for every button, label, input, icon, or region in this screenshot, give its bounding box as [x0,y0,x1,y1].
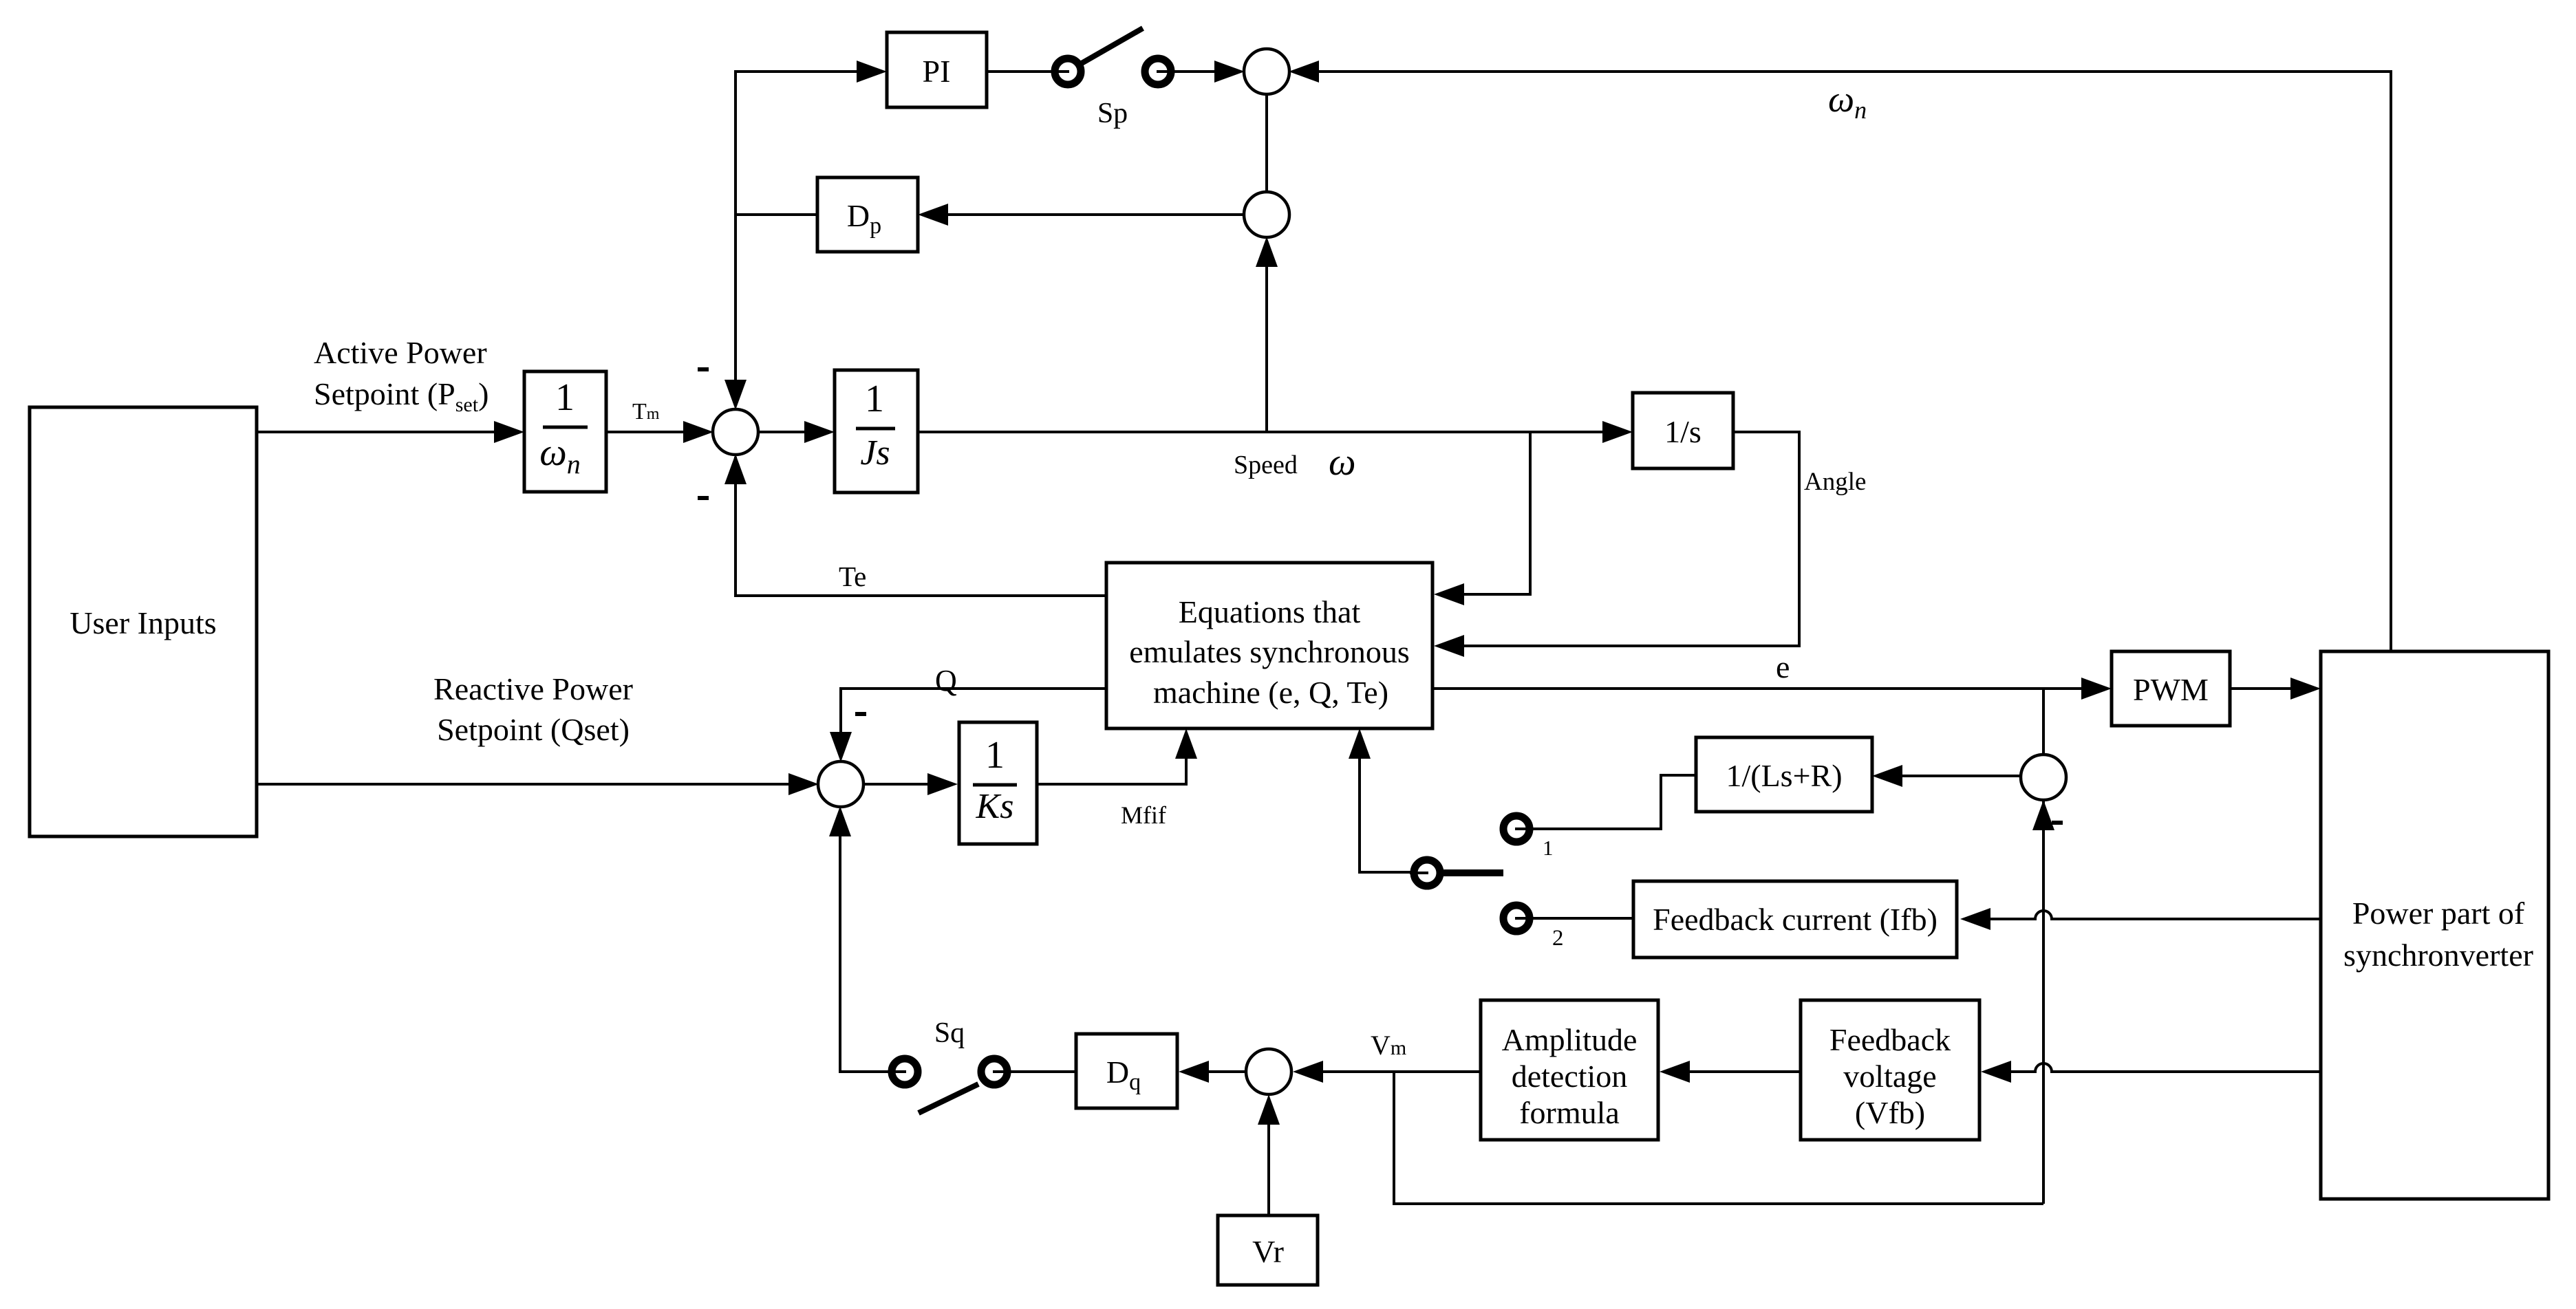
wire PWM to power part [2230,678,2321,700]
wire e branch down to current summing junction [2042,689,2045,755]
wire selector pole into equations box [1349,728,1427,872]
svg-text:2: 2 [1552,926,1564,951]
label Sp [1097,98,1128,129]
block User Inputs [30,407,257,836]
block 1/Js [835,370,918,493]
svg-text:voltage: voltage [1843,1059,1936,1094]
wire Mfif into equations box [1038,728,1197,784]
switch terminal 2 [1503,905,1534,931]
block Amplitude detection formula [1481,1000,1658,1140]
svg-text:Feedback: Feedback [1829,1022,1951,1057]
wire Te feedback [724,454,1106,596]
svg-text:1/s: 1/s [1664,414,1702,449]
wire terminal 1 to 1/(Ls+R) [1529,775,1696,829]
wire branch down into equations box (speed input) [1434,432,1530,605]
svg-text:1: 1 [865,378,884,420]
wire Q feedback from equations box [830,689,1106,762]
wire branch up to Dp junction [1256,237,1278,432]
wire e from equations box to PWM [1432,678,2112,700]
svg-text:Reactive Power: Reactive Power [433,671,633,706]
svg-text:1: 1 [555,376,575,419]
svg-text:(Vfb): (Vfb) [1855,1095,1925,1130]
wire Vm branch down and around to current junction [1394,1072,2043,1204]
wire Vfb from power part to Feedback voltage block (hop) [1981,1061,2321,1083]
wire Dp junction to Dp block [918,204,1245,226]
block 1/Ks [959,722,1037,844]
wire Vr to voltage junction [1258,1094,1280,1215]
switch terminal 1 [1503,816,1534,842]
wire Vfb to Amplitude detection [1660,1061,1801,1083]
svg-text:1: 1 [1543,836,1554,860]
switch selector pole [1410,860,1503,886]
summing junction (torque) [713,409,758,455]
label Mfif [1121,801,1166,829]
svg-text:Te: Te [839,561,866,592]
label omega [1329,441,1356,484]
label 1 [1543,836,1554,860]
svg-text:Feedback current (Ifb): Feedback current (Ifb) [1653,902,1938,937]
summing junction (current) [2021,755,2066,830]
wire PI output to switch Sp [987,70,1068,73]
svg-text:Sq: Sq [934,1017,965,1049]
label Te [839,561,866,592]
wire terminal 2 to Feedback current block [1529,917,1633,920]
wire speed omega from 1/Js to 1/s [918,421,1633,443]
block 1/s [1633,393,1733,468]
svg-text:PWM: PWM [2133,672,2209,707]
block Vr [1218,1215,1318,1285]
svg-text:Setpoint (Qset): Setpoint (Qset) [437,712,630,747]
svg-text:Speed: Speed [1234,451,1298,479]
label Q [935,664,957,697]
wire torque sum to 1/Js [758,421,835,443]
minus sign lower input of torque junction [698,496,709,500]
svg-text:Amplitude: Amplitude [1502,1022,1638,1057]
label e [1776,649,1790,684]
svg-text:e: e [1776,649,1790,684]
label Vm [1371,1030,1406,1061]
wire node vertical (PI and Dp tap) [724,61,887,410]
svg-text:1/(Ls+R): 1/(Ls+R) [1726,758,1842,793]
wire Vm from Amplitude detection to Vm summing junction [1293,1061,1481,1083]
label Angle [1804,468,1866,496]
svg-text:Angle: Angle [1804,468,1866,496]
wire Pset from User Inputs to 1/wn block [257,421,524,443]
block Dq [1076,1034,1177,1108]
block 1/(Ls+R) [1696,737,1872,812]
summing junction (voltage) [1246,1049,1291,1094]
label Sq [934,1017,965,1049]
label Tm [632,399,660,424]
wire Dq to switch Sq [994,1070,1076,1073]
svg-text:1: 1 [985,734,1005,777]
svg-text:formula: formula [1519,1095,1620,1130]
summing junction (frequency) [1244,49,1289,94]
svg-text:Ks: Ks [976,787,1014,826]
svg-text:Active Power: Active Power [314,335,487,370]
svg-text:Sp: Sp [1097,98,1128,129]
label 2 [1552,926,1564,951]
label Reactive Power Setpoint (Qset) [433,671,633,747]
block Feedback current (Ifb) [1633,881,1957,958]
block Feedback voltage (Vfb) [1801,1000,1979,1140]
minus sign upper input of torque junction [698,367,709,371]
svg-text:Vr: Vr [1252,1234,1284,1269]
wire Ifb from power part to Feedback current block (hop) [1960,908,2321,930]
svg-text:detection: detection [1512,1059,1628,1094]
wire angle from 1/s into equations box [1434,432,1799,657]
wire omega_n feedback from power part [1289,61,2391,651]
svg-text:Mfif: Mfif [1121,801,1166,829]
wire Sq output up to reactive junction [829,806,892,1072]
summing junction (reactive) [818,761,863,807]
block 1/wn [524,371,606,492]
svg-text:User Inputs: User Inputs [69,605,216,640]
wire switch Sp to frequency summing junction [1158,61,1245,83]
svg-text:Js: Js [860,433,890,473]
wire between frequency junction and Dp junction [1265,94,1268,193]
wire reactive junction to 1/Ks [863,773,958,795]
block PI [887,32,987,107]
svg-text:ω: ω [1329,441,1356,484]
wire Dp output to node vertical [736,213,817,216]
minus sign current junction [2052,821,2063,825]
wire Tm to torque summing junction [606,421,713,443]
summing junction (Dp tap) [1244,192,1289,237]
svg-text:Equations that: Equations that [1179,594,1361,629]
switch Sp [1051,28,1175,85]
wire voltage reference vertical below current junction [2042,799,2045,1204]
wire current junction to 1/(Ls+R) [1872,765,2021,787]
svg-text:Power part of: Power part of [2352,896,2525,931]
svg-text:PI: PI [923,54,951,89]
block PWM [2112,651,2230,726]
block Equations [1106,563,1432,728]
svg-text:emulates synchronous: emulates synchronous [1129,634,1410,669]
label Speed [1234,451,1298,479]
wire Qset from User Inputs to Q summing junction [257,773,819,795]
svg-text:Q: Q [935,664,957,697]
block Power part of synchronverter [2321,651,2548,1199]
block Dp [817,177,918,252]
svg-text:machine (e, Q, Te): machine (e, Q, Te) [1153,675,1388,710]
switch Sq [888,1059,1011,1113]
minus sign Q input [855,712,866,716]
label Active Power Setpoint (Pset) [314,335,489,416]
svg-text:synchronverter: synchronverter [2343,938,2533,973]
wire voltage junction to Dq [1179,1061,1246,1083]
label omega_n [1828,78,1867,124]
